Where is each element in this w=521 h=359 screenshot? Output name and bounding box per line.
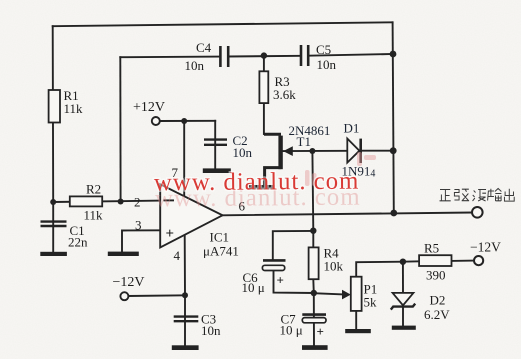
wire: left vertical from top corner down to R1/R2/C1 node bbox=[52, 26, 55, 202]
wire: D2 top lead bbox=[402, 262, 404, 293]
wire: op-amp pin 7 vertical bbox=[183, 121, 185, 196]
wire: pin 3 lead and down to ground bbox=[122, 230, 161, 253]
svg-text:D2: D2 bbox=[430, 293, 446, 308]
svg-text:10n: 10n bbox=[317, 57, 337, 72]
svg-text:+: + bbox=[166, 226, 175, 242]
node C: +12V/pin7 junction bbox=[181, 118, 187, 124]
wire: P1 wiper feed bbox=[314, 293, 343, 294]
wire: R4 top lead bbox=[312, 231, 314, 248]
wire: right vertical from top corner down to output line bbox=[393, 22, 394, 213]
resistor R3 bbox=[259, 71, 268, 103]
wire: C6 branch from R4 top node bbox=[273, 231, 314, 260]
node G: D1 cathode/right-vertical junction bbox=[390, 147, 397, 154]
svg-text:22n: 22n bbox=[68, 235, 88, 250]
wire: C5 to right vertical bbox=[308, 54, 393, 56]
resistor R2 bbox=[70, 196, 102, 206]
ground (T1 source) bbox=[249, 185, 275, 189]
wire: D2 bottom lead to ground bbox=[402, 308, 404, 327]
glyph 弦 bbox=[454, 189, 469, 201]
wire: R3 top lead from C4/C5 node bbox=[263, 56, 265, 72]
svg-text:5k: 5k bbox=[364, 295, 378, 310]
potentiometer P1 bbox=[342, 277, 362, 311]
wire: R2 row from left node to op-amp pin 2 bbox=[53, 201, 161, 202]
diode D1 (1N914) bbox=[347, 139, 360, 163]
wire: R5 left lead bbox=[403, 260, 419, 262]
wire: D1 cathode to right vertical bbox=[362, 150, 393, 152]
wire: P1 top lead to R5/D2 node bbox=[356, 262, 403, 277]
capacitor C2 bbox=[204, 140, 227, 145]
ground (D2 bottom) bbox=[392, 326, 416, 330]
svg-text:11k: 11k bbox=[64, 101, 84, 116]
svg-text:10n: 10n bbox=[185, 58, 205, 73]
svg-text:R5: R5 bbox=[424, 241, 439, 256]
transistor T1 gate arrow bbox=[283, 146, 293, 156]
svg-text:10n: 10n bbox=[201, 323, 221, 338]
capacitor C1 bbox=[41, 222, 67, 226]
wire: inner top wire left segment to C4 bbox=[120, 56, 220, 59]
terminal -12V (right) bbox=[474, 256, 483, 265]
wire: C3 branch bbox=[184, 295, 186, 346]
svg-text:μA741: μA741 bbox=[203, 244, 239, 259]
label sine wave output (正弦波输出) bbox=[440, 189, 515, 202]
node D: C4/C5/R3 junction bbox=[261, 52, 267, 58]
glyph 波 bbox=[473, 190, 486, 202]
wire: op-amp pin 4 vertical bbox=[184, 236, 186, 296]
ground (op-amp pin 3) bbox=[108, 252, 139, 256]
glyph 正 bbox=[440, 190, 451, 201]
op-amp U1 (IC1 uA741) triangle bbox=[160, 184, 222, 247]
node A: R1/R2/C1 junction bbox=[50, 199, 56, 205]
svg-text:10k: 10k bbox=[324, 259, 344, 274]
node B: R2/pin2/C4-column junction bbox=[118, 199, 124, 205]
svg-text:3: 3 bbox=[135, 218, 142, 233]
transistor T1 drain lead bbox=[264, 133, 281, 136]
wire: R5 right lead to -12V terminal bbox=[452, 260, 474, 262]
svg-text:T1: T1 bbox=[297, 134, 311, 149]
node J: R4-top/C6 junction bbox=[310, 228, 316, 234]
svg-text:+: + bbox=[317, 324, 324, 339]
svg-text:+12V: +12V bbox=[133, 100, 165, 115]
terminal -12V (op-amp supply) bbox=[120, 292, 128, 300]
svg-text:D1: D1 bbox=[344, 121, 360, 136]
ground (C7 branch) bbox=[302, 345, 328, 350]
svg-text:6.2V: 6.2V bbox=[424, 307, 450, 322]
wire: R4 bottom lead bbox=[312, 279, 315, 293]
svg-text:www. dianlut. com: www. dianlut. com bbox=[154, 168, 360, 197]
node K: R4-bottom/C6/C7/P1 junction bbox=[311, 290, 317, 296]
svg-text:−12V: −12V bbox=[470, 240, 501, 255]
resistor R4 bbox=[309, 247, 319, 279]
glyph 出 bbox=[504, 189, 514, 201]
node I: -12V/pin4/C3 junction bbox=[182, 292, 188, 298]
zener diode D2 (6.2V) bbox=[391, 293, 415, 310]
ground (C1 branch) bbox=[40, 252, 67, 256]
wire: vertical from inner top wire down to R2/pin2 node bbox=[119, 57, 121, 201]
resistor R1 bbox=[49, 90, 60, 123]
svg-text:3.6k: 3.6k bbox=[273, 87, 296, 102]
glyph 输 bbox=[488, 189, 502, 202]
svg-text:+: + bbox=[277, 273, 284, 288]
wire: -12V feed bbox=[128, 294, 185, 297]
wire: +12V feed to C2 corner bbox=[159, 120, 215, 122]
ground (C2 branch) bbox=[203, 168, 231, 173]
svg-text:2: 2 bbox=[134, 195, 141, 210]
capacitor C4 bbox=[220, 46, 228, 67]
wire: R3 bottom lead down to drain level bbox=[263, 103, 265, 134]
node L: P1-top/R5/D2 junction bbox=[400, 259, 406, 265]
ground (C3 branch) bbox=[172, 345, 199, 350]
wire: C6 bottom to R4 bottom node bbox=[274, 271, 314, 293]
svg-text:10 μ: 10 μ bbox=[280, 323, 303, 338]
capacitor C5 bbox=[301, 45, 308, 66]
wire: output line from op-amp pin 6 to output terminal bbox=[223, 213, 472, 216]
svg-text:10 μ: 10 μ bbox=[242, 280, 265, 295]
svg-text:390: 390 bbox=[426, 268, 446, 283]
wire: gate node vertical down across output line to R4 top bbox=[311, 151, 314, 231]
svg-text:−12V: −12V bbox=[113, 275, 145, 290]
svg-text:C4: C4 bbox=[196, 40, 212, 55]
svg-text:10n: 10n bbox=[233, 145, 253, 160]
wire: outer top feedback wire bbox=[53, 22, 393, 26]
wire: between C4 and C5 bbox=[228, 55, 300, 58]
wire: C1 branch bbox=[52, 202, 54, 253]
svg-text:R2: R2 bbox=[86, 182, 101, 197]
ground (P1 bottom) bbox=[345, 329, 371, 333]
watermark pink artifact near gate node bbox=[305, 152, 376, 186]
terminal sine output bbox=[472, 207, 483, 218]
terminal +12V bbox=[152, 117, 160, 125]
node H: output line/right-vertical junction bbox=[390, 210, 397, 217]
capacitor C7 (electrolytic) bbox=[302, 315, 326, 339]
wire: P1 bottom lead to ground bbox=[355, 311, 357, 330]
wire: C2 vertical branch bbox=[214, 121, 216, 170]
resistor R5 bbox=[419, 255, 451, 266]
node F: gate/D1 junction bbox=[309, 148, 315, 154]
wire: C7 branch below R4 bottom node bbox=[313, 293, 315, 346]
svg-text:IC1: IC1 bbox=[210, 230, 230, 245]
svg-text:C5: C5 bbox=[316, 42, 331, 57]
wire: gate lead from T1 to D1 anode bbox=[283, 150, 347, 152]
svg-text:11k: 11k bbox=[84, 208, 104, 223]
node E: C5/right-vertical junction bbox=[390, 51, 397, 58]
svg-text:4: 4 bbox=[174, 248, 181, 263]
capacitor C6 (electrolytic) bbox=[262, 260, 285, 287]
transistor Q1 (T1 2N4861 JFET) channel bar bbox=[264, 134, 293, 186]
capacitor C3 bbox=[174, 317, 199, 322]
transistor T1 source lead bbox=[265, 168, 281, 186]
